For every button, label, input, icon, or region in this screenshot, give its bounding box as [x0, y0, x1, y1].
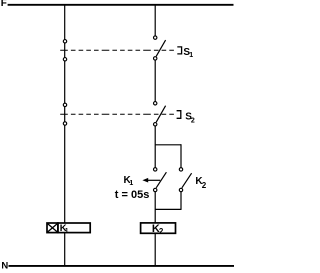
contact terminal circle: K2 contact top — [179, 168, 182, 171]
svg-text:1: 1 — [189, 52, 193, 59]
contact terminal circle: left switch 1 bottom — [63, 58, 66, 61]
wire: bottom neutral rail — [9, 265, 235, 267]
wire: left line from coil K1 to N rail — [64, 233, 66, 266]
wire: K1 contact bottom down to coil K2, past rejoin — [154, 192, 156, 223]
svg-text:2: 2 — [191, 117, 195, 124]
svg-text:1: 1 — [65, 227, 69, 234]
wire: branch split horizontal — [155, 144, 181, 146]
wire: left line down to coil K1 — [64, 125, 66, 223]
svg-text:N: N — [1, 260, 8, 271]
contact terminal circle: S1 top — [154, 36, 157, 39]
svg-text:1: 1 — [129, 180, 133, 187]
time-delay arrow on K1 blade — [148, 179, 161, 181]
contact terminal circle: left switch 1 top — [63, 40, 66, 43]
contact terminal circle: K1 contact bottom — [154, 188, 157, 191]
contact terminal circle: K1 contact top — [154, 168, 157, 171]
wire: left drop from F rail to first contact — [64, 5, 66, 40]
wire: right line between S1 and S2 — [154, 60, 156, 102]
svg-text:F: F — [1, 0, 7, 9]
svg-text:t = 05s: t = 05s — [115, 189, 150, 201]
switch S1 blade (open) — [156, 40, 165, 56]
manual actuator bracket of S1 — [177, 47, 181, 54]
wire: right drop from F rail to S1 — [154, 5, 156, 36]
contact terminal circle: S1 bottom — [154, 57, 157, 60]
contact terminal circle: S2 top — [154, 102, 157, 105]
wire: coil K2 to N rail — [154, 233, 156, 266]
wire: left line between switch 1 and switch 2 — [64, 61, 66, 104]
coil K2 box — [141, 223, 176, 233]
wire: top phase rail — [8, 4, 234, 6]
wire: left switch 2 blade (closed, vertical) — [64, 107, 66, 123]
manual actuator bracket of S2 — [177, 111, 181, 119]
dashed linkage line of switch row 2 — [60, 113, 174, 115]
svg-text:2: 2 — [159, 227, 164, 236]
wire: left switch 1 blade (closed, vertical) — [64, 43, 66, 58]
wire: right branch drop to K2 contact — [180, 144, 182, 168]
contact K2 blade (open) — [182, 173, 192, 188]
switch S2 blade (open) — [156, 106, 165, 123]
contact terminal circle: S2 bottom — [154, 123, 157, 126]
contact terminal circle: left switch 2 top — [63, 103, 66, 106]
wire: K2 branch bottom lead — [180, 192, 182, 210]
coil K1 (time relay): X box — [47, 223, 58, 233]
contact terminal circle: K2 contact bottom — [179, 188, 182, 191]
contact terminal circle: left switch 2 bottom — [63, 122, 66, 125]
svg-text:2: 2 — [202, 181, 207, 190]
wire: branch rejoin horizontal — [155, 208, 181, 210]
dashed linkage line of switch row 1 — [60, 49, 175, 51]
wire: right line from S2 down through branch split to K1 contact — [154, 126, 156, 168]
contact K1 blade (open, timed) — [156, 172, 166, 188]
coil K1 label box — [58, 223, 90, 233]
